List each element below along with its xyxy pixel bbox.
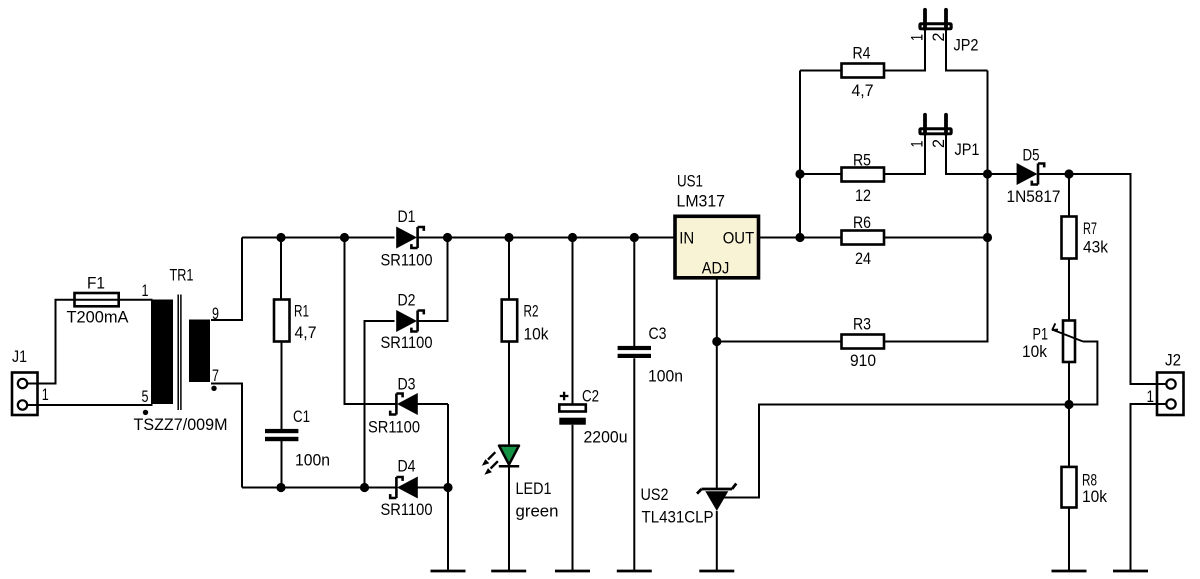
potentiometer P1 bbox=[1052, 321, 1083, 363]
wire R4 right up into JP2 pin 1 bbox=[885, 30, 926, 71]
node D4 anode junction bbox=[443, 483, 452, 492]
svg-text:TR1: TR1 bbox=[170, 267, 194, 285]
svg-text:10k: 10k bbox=[524, 326, 550, 344]
node C3 on +V rail bbox=[630, 233, 639, 242]
wire ground vertical D3/D4 bbox=[447, 404, 449, 571]
wire JP2 pin 2 down and right to node column bbox=[946, 30, 988, 71]
wire R1 top branch bbox=[280, 238, 282, 300]
svg-text:JP2: JP2 bbox=[954, 37, 979, 55]
ground bar C2 bbox=[555, 570, 590, 573]
svg-text:4,7: 4,7 bbox=[852, 82, 874, 100]
diode D1 bbox=[396, 227, 424, 249]
node C1 bottom on rail bbox=[276, 483, 285, 492]
node R6 right junction bbox=[983, 233, 992, 242]
svg-text:1: 1 bbox=[909, 34, 927, 41]
node C2 on +V rail bbox=[568, 233, 577, 242]
op-amp U1 regulator US1 LM317 box bbox=[675, 216, 759, 277]
svg-text:1N5817: 1N5817 bbox=[1007, 188, 1061, 206]
svg-text:24: 24 bbox=[855, 250, 871, 268]
wire node B to D2 anode bbox=[365, 321, 395, 488]
svg-text:1: 1 bbox=[1147, 388, 1155, 406]
wire left column to R5 bbox=[800, 173, 842, 175]
diode D2 bbox=[396, 310, 424, 332]
svg-text:910: 910 bbox=[850, 352, 876, 370]
wire R5 right up into JP1 pin 1 bbox=[885, 135, 926, 174]
node OUT junction bbox=[795, 233, 804, 242]
svg-text:TSZZ7/009M: TSZZ7/009M bbox=[134, 416, 228, 434]
wire US2 ref to P1 bottom node bbox=[723, 405, 1069, 498]
svg-text:SR1100: SR1100 bbox=[381, 252, 433, 270]
ground bar J2 bbox=[1113, 570, 1148, 573]
resistor R1 bbox=[274, 300, 290, 342]
svg-text:T200mA: T200mA bbox=[67, 309, 129, 327]
wire D3 anode to ground vertical bbox=[417, 403, 448, 405]
ground bar R8 bbox=[1052, 570, 1087, 573]
svg-text:10k: 10k bbox=[1082, 488, 1108, 506]
wire C3 bottom to ground bbox=[633, 358, 635, 571]
wire R1 bottom to C1 top bbox=[281, 342, 283, 430]
svg-text:1: 1 bbox=[42, 386, 49, 404]
svg-text:SR1100: SR1100 bbox=[381, 334, 433, 352]
wire R2 branch from +V rail bbox=[508, 238, 510, 300]
wire D5 cathode right and down to J2 top pin bbox=[1038, 174, 1157, 384]
wire TR1 pin 7 to node B riser bbox=[211, 384, 242, 488]
svg-text:1: 1 bbox=[142, 282, 149, 300]
wire C3 branch from +V rail bbox=[633, 238, 635, 347]
svg-text:LED1: LED1 bbox=[516, 480, 552, 498]
svg-text:LM317: LM317 bbox=[677, 193, 726, 211]
wire US2 anode to ground bbox=[716, 511, 718, 571]
svg-text:R1: R1 bbox=[294, 303, 309, 321]
shunt regulator US2 TL431 bbox=[697, 484, 736, 511]
svg-text:US1: US1 bbox=[677, 172, 703, 190]
svg-text:R3: R3 bbox=[853, 316, 871, 334]
svg-text:1: 1 bbox=[909, 141, 927, 148]
wire JP1 pin 2 down and right to node column bbox=[946, 135, 988, 174]
wire J1 pin top to fuse F1 bbox=[38, 300, 75, 384]
svg-text:12: 12 bbox=[855, 187, 871, 205]
svg-text:SR1100: SR1100 bbox=[368, 419, 420, 437]
wire D5 node down to R7 bbox=[1068, 174, 1070, 217]
connector J2 bbox=[1155, 373, 1184, 416]
diode D4 bbox=[390, 477, 418, 499]
connector J1 bbox=[12, 373, 40, 416]
wire P1 wiper loop to bottom node bbox=[1069, 342, 1097, 405]
svg-text:C2: C2 bbox=[582, 387, 599, 405]
svg-text:9: 9 bbox=[212, 305, 219, 323]
transformer TR1 bbox=[143, 295, 217, 416]
svg-text:J1: J1 bbox=[12, 348, 27, 366]
wire D4 anode to ground vertical bbox=[417, 487, 448, 489]
svg-text:R7: R7 bbox=[1083, 220, 1097, 238]
ground bar D3/D4 bbox=[431, 570, 466, 573]
resistor R7 bbox=[1062, 217, 1077, 259]
svg-text:4,7: 4,7 bbox=[295, 324, 317, 342]
fuse F1 bbox=[75, 293, 119, 306]
resistor R8 bbox=[1062, 467, 1077, 508]
node ADJ / R3 bbox=[712, 337, 721, 346]
capacitor C3 bbox=[618, 346, 651, 358]
svg-text:100n: 100n bbox=[648, 368, 683, 386]
svg-text:7: 7 bbox=[212, 367, 219, 385]
wire node B rail bbox=[242, 487, 396, 489]
resistor R2 bbox=[502, 300, 518, 342]
wire TR1 pin 9 to node A riser bbox=[211, 238, 242, 321]
svg-text:US2: US2 bbox=[641, 486, 669, 504]
svg-text:SR1100: SR1100 bbox=[381, 501, 433, 519]
wire C2 branch from +V rail bbox=[572, 238, 574, 405]
wire LED1 cathode to ground bbox=[508, 466, 510, 571]
svg-text:IN: IN bbox=[679, 229, 694, 247]
svg-text:D1: D1 bbox=[398, 208, 416, 226]
svg-text:R5: R5 bbox=[853, 152, 871, 170]
jumper JP1 bbox=[918, 115, 952, 136]
wire P1 bottom to R8 bbox=[1068, 362, 1070, 467]
wire D1 cathode along +V rail to US1 IN bbox=[417, 237, 675, 239]
ground bar C3 bbox=[617, 570, 652, 573]
wire J2 bottom pin to ground bbox=[1131, 404, 1158, 571]
svg-text:ADJ: ADJ bbox=[702, 260, 730, 278]
wire node A to D3 cathode bbox=[345, 238, 397, 405]
jumper JP2 bbox=[918, 10, 952, 31]
node D2 anode branch bbox=[360, 483, 369, 492]
svg-text:10k: 10k bbox=[1022, 343, 1048, 361]
svg-text:J2: J2 bbox=[1165, 351, 1181, 369]
svg-text:C1: C1 bbox=[293, 408, 310, 426]
svg-text:D3: D3 bbox=[398, 376, 416, 394]
wire R7 to P1 top bbox=[1068, 259, 1070, 321]
resistor R6 bbox=[842, 231, 885, 245]
svg-text:D4: D4 bbox=[398, 458, 416, 476]
node R1 top on rail bbox=[276, 233, 285, 242]
svg-text:C3: C3 bbox=[649, 325, 667, 343]
wire US1 ADJ down to US2 cathode bbox=[716, 279, 718, 490]
svg-text:OUT: OUT bbox=[723, 229, 755, 247]
node P1 bottom / R8 top bbox=[1064, 400, 1073, 409]
LED LED1 bbox=[482, 446, 519, 475]
wire node column to D5 anode bbox=[988, 173, 1018, 175]
svg-text:2: 2 bbox=[930, 139, 948, 148]
node R2 on +V rail bbox=[504, 233, 513, 242]
svg-text:100n: 100n bbox=[295, 452, 330, 470]
svg-text:2200u: 2200u bbox=[584, 429, 628, 447]
resistor R3 bbox=[842, 335, 885, 349]
node JP1 pin2 / D5 anode bbox=[983, 169, 992, 178]
wire D2 cathode up to +V rail bbox=[417, 238, 447, 322]
svg-text:2: 2 bbox=[930, 33, 948, 42]
svg-text:TL431CLP: TL431CLP bbox=[642, 509, 714, 527]
wire R2 to LED1 anode bbox=[508, 342, 510, 447]
ground bar LED1 bbox=[491, 570, 526, 573]
wire C2 bottom to ground bbox=[572, 425, 574, 571]
svg-text:R4: R4 bbox=[853, 45, 871, 63]
svg-text:F1: F1 bbox=[87, 274, 105, 292]
resistor R5 bbox=[842, 168, 885, 182]
wire US1 OUT to R6 bbox=[759, 237, 842, 239]
svg-text:43k: 43k bbox=[1083, 239, 1109, 257]
svg-text:R2: R2 bbox=[524, 303, 539, 321]
wire OUT junction up left column bbox=[799, 71, 801, 238]
capacitor C2 bbox=[559, 392, 586, 425]
resistor R4 bbox=[842, 64, 885, 78]
wire C1 bottom to node B rail bbox=[281, 441, 283, 488]
node D3 branch on rail bbox=[340, 233, 349, 242]
svg-text:5: 5 bbox=[142, 388, 149, 406]
diode D5 bbox=[1017, 163, 1045, 185]
svg-text:JP1: JP1 bbox=[955, 141, 980, 159]
wire J1 pin bottom to TR1 pin 5 bbox=[38, 404, 153, 406]
wire US1 ADJ to R3 bbox=[717, 341, 842, 343]
node D2 cathode on +V rail bbox=[443, 233, 452, 242]
diode D3 bbox=[390, 393, 418, 415]
node D5 cathode / R7 bbox=[1064, 169, 1073, 178]
svg-text:R6: R6 bbox=[853, 214, 871, 232]
ground bar US2 bbox=[699, 570, 734, 573]
svg-text:green: green bbox=[516, 503, 559, 521]
svg-text:R8: R8 bbox=[1082, 472, 1097, 490]
wire R8 to ground bbox=[1068, 508, 1070, 572]
svg-text:D5: D5 bbox=[1023, 147, 1040, 165]
wire F1 to TR1 pin 1 bbox=[119, 299, 153, 301]
svg-text:D2: D2 bbox=[398, 292, 416, 310]
wire R6 right to node column bbox=[885, 237, 988, 239]
capacitor C1 bbox=[265, 429, 298, 441]
wire node A rail bbox=[242, 237, 395, 239]
svg-text:P1: P1 bbox=[1033, 326, 1049, 344]
wire left column to R4 bbox=[800, 70, 842, 72]
wire R3 right to node column bbox=[885, 71, 988, 342]
node R5 branch bbox=[795, 169, 804, 178]
